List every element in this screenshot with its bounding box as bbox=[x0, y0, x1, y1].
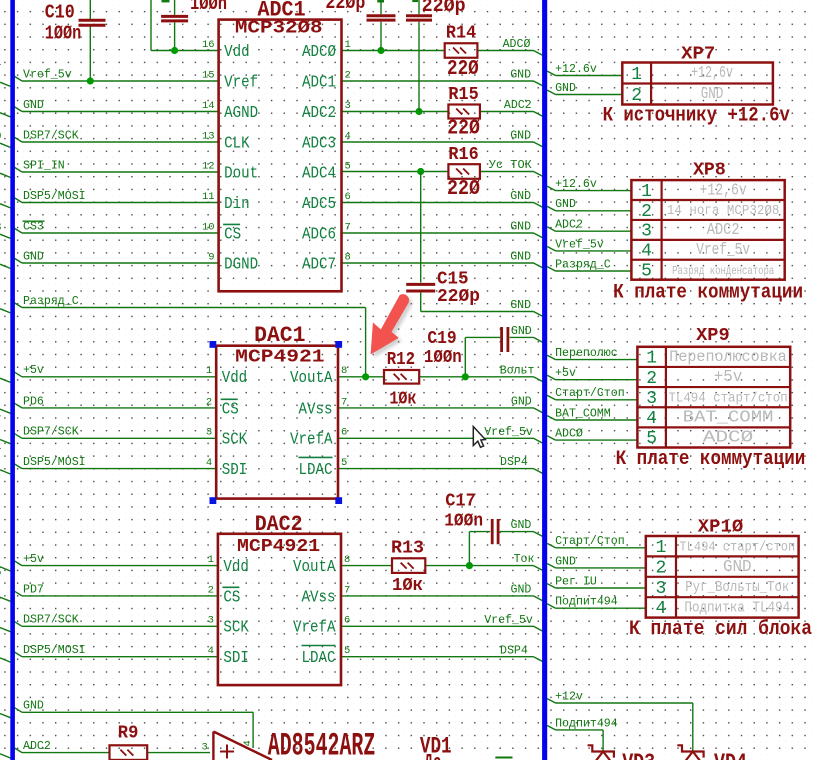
svg-text:CS: CS bbox=[224, 225, 241, 244]
svg-text:1ØØn: 1ØØn bbox=[190, 0, 227, 15]
svg-text:DSP5/MOSI: DSP5/MOSI bbox=[23, 190, 86, 203]
svg-text:BAT_COMM: BAT_COMM bbox=[555, 407, 611, 420]
svg-text:4: 4 bbox=[208, 645, 214, 657]
svg-text:5: 5 bbox=[344, 645, 350, 657]
svg-text:VoutA: VoutA bbox=[293, 558, 336, 577]
svg-text:VrefA: VrefA bbox=[293, 619, 336, 638]
svg-text:XP1Ø: XP1Ø bbox=[698, 517, 743, 538]
svg-text:TL494 старт/стоп: TL494 старт/стоп bbox=[679, 539, 795, 555]
svg-text:2: 2 bbox=[208, 584, 214, 596]
svg-text:7: 7 bbox=[345, 221, 351, 233]
svg-text:1ØØn: 1ØØn bbox=[424, 347, 462, 368]
svg-text:Vref_5v: Vref_5v bbox=[484, 426, 533, 439]
svg-text:1: 1 bbox=[631, 65, 642, 85]
svg-text:4: 4 bbox=[646, 409, 657, 429]
svg-text:CS: CS bbox=[222, 400, 239, 419]
svg-text:5: 5 bbox=[0, 567, 2, 579]
svg-text:DSP4: DSP4 bbox=[500, 456, 528, 469]
svg-text:Din: Din bbox=[224, 195, 250, 214]
svg-text:3: 3 bbox=[208, 615, 214, 627]
svg-text:Руг_Вольты_Ток: Руг_Вольты_Ток bbox=[685, 580, 789, 596]
svg-text:ADC7: ADC7 bbox=[302, 255, 336, 274]
svg-text:ADC2: ADC2 bbox=[504, 99, 532, 112]
svg-text:15: 15 bbox=[202, 69, 215, 81]
svg-text:DSP7/SCK: DSP7/SCK bbox=[23, 614, 79, 627]
svg-text:7: 7 bbox=[0, 597, 2, 609]
svg-text:GND: GND bbox=[511, 325, 532, 338]
svg-text:22Ø: 22Ø bbox=[447, 58, 479, 81]
svg-text:CS3: CS3 bbox=[23, 220, 44, 233]
svg-text:C17: C17 bbox=[445, 491, 476, 512]
svg-text:1: 1 bbox=[206, 365, 212, 377]
svg-text:MCP32Ø8: MCP32Ø8 bbox=[235, 18, 323, 39]
svg-text:8: 8 bbox=[344, 554, 350, 566]
svg-text:ADCØ: ADCØ bbox=[555, 428, 583, 441]
svg-text:14: 14 bbox=[202, 100, 215, 112]
svg-text:1: 1 bbox=[646, 349, 657, 369]
svg-text:AD8542ARZ: AD8542ARZ bbox=[268, 728, 376, 760]
svg-text:11: 11 bbox=[202, 191, 215, 203]
svg-text:AVss: AVss bbox=[299, 400, 333, 419]
svg-text:3: 3 bbox=[206, 427, 212, 439]
svg-text:6: 6 bbox=[345, 191, 351, 203]
svg-text:3: 3 bbox=[202, 742, 208, 754]
svg-text:Подпитка TL494: Подпитка TL494 bbox=[684, 601, 790, 617]
svg-text:GND: GND bbox=[23, 700, 44, 713]
svg-text:8: 8 bbox=[341, 365, 347, 377]
svg-text:SCK: SCK bbox=[223, 619, 249, 638]
svg-text:Старт/Стоп: Старт/Стоп bbox=[555, 387, 625, 400]
svg-text:1ØØn: 1ØØn bbox=[45, 23, 82, 45]
svg-text:GND: GND bbox=[510, 251, 531, 264]
svg-text:DGND: DGND bbox=[224, 255, 258, 274]
svg-text:VrefA: VrefA bbox=[290, 431, 333, 450]
svg-text:+5v: +5v bbox=[23, 553, 44, 566]
svg-text:4: 4 bbox=[655, 599, 666, 619]
svg-text:ADC2: ADC2 bbox=[302, 104, 336, 123]
svg-text:Ток: Ток bbox=[514, 553, 535, 566]
svg-text:16: 16 bbox=[202, 39, 215, 51]
svg-text:1: 1 bbox=[641, 182, 652, 202]
svg-text:4: 4 bbox=[641, 242, 652, 262]
svg-text:GND: GND bbox=[510, 221, 531, 234]
svg-text:Да: Да bbox=[424, 751, 442, 760]
svg-text:+12,6v: +12,6v bbox=[700, 180, 747, 199]
svg-text:Переполюсовка: Переполюсовка bbox=[669, 348, 787, 366]
svg-text:К плате коммутации: К плате коммутации bbox=[616, 448, 806, 471]
svg-text:10: 10 bbox=[202, 221, 215, 233]
svg-text:ADC1: ADC1 bbox=[302, 73, 336, 92]
svg-text:13: 13 bbox=[202, 130, 215, 142]
svg-text:DSP5/MOSI: DSP5/MOSI bbox=[23, 456, 86, 469]
svg-text:1Øк: 1Øк bbox=[389, 388, 416, 409]
svg-text:6: 6 bbox=[341, 427, 347, 439]
svg-text:2: 2 bbox=[646, 369, 657, 389]
svg-text:DSP4: DSP4 bbox=[500, 644, 528, 657]
svg-text:DSP5/MOSI: DSP5/MOSI bbox=[23, 644, 86, 657]
svg-text:3: 3 bbox=[345, 100, 351, 112]
svg-text:XP7: XP7 bbox=[681, 43, 715, 64]
svg-text:7: 7 bbox=[341, 396, 347, 408]
svg-text:Vref_5v: Vref_5v bbox=[555, 238, 604, 251]
svg-text:1Øк: 1Øк bbox=[392, 575, 423, 596]
svg-text:ADC4: ADC4 bbox=[302, 164, 336, 183]
svg-text:Разряд_С: Разряд_С bbox=[23, 295, 79, 308]
svg-text:Vdd: Vdd bbox=[223, 558, 249, 577]
svg-text:К источнику +12.6v: К источнику +12.6v bbox=[603, 105, 790, 128]
svg-text:l: l bbox=[0, 57, 2, 69]
svg-text:Dout: Dout bbox=[224, 164, 258, 183]
svg-text:1: 1 bbox=[345, 39, 351, 51]
svg-text:3: 3 bbox=[646, 389, 657, 409]
svg-text:R14: R14 bbox=[446, 22, 476, 43]
svg-text:SDI: SDI bbox=[223, 649, 249, 668]
svg-text:5: 5 bbox=[646, 429, 657, 449]
svg-text:XP8: XP8 bbox=[693, 160, 726, 181]
svg-text:SDI: SDI bbox=[222, 461, 248, 480]
svg-text:22Ø: 22Ø bbox=[447, 118, 480, 141]
svg-text:+12v: +12v bbox=[555, 690, 583, 703]
svg-text:GND: GND bbox=[23, 99, 44, 112]
svg-text:+12,6v: +12,6v bbox=[691, 63, 733, 82]
svg-text:Vdd: Vdd bbox=[222, 369, 248, 388]
svg-text:Vref: Vref bbox=[224, 73, 258, 92]
svg-text:4: 4 bbox=[345, 130, 351, 142]
svg-text:Разряд_С: Разряд_С bbox=[555, 258, 611, 271]
svg-text:C19: C19 bbox=[427, 328, 456, 349]
svg-text:1ØØn: 1ØØn bbox=[444, 511, 483, 532]
svg-text:GND: GND bbox=[23, 250, 44, 263]
svg-text:SCK: SCK bbox=[222, 431, 248, 450]
svg-text:2: 2 bbox=[655, 558, 666, 578]
svg-text:TL494 старт/стоп: TL494 старт/стоп bbox=[668, 390, 787, 406]
svg-text:DSP7/SCK: DSP7/SCK bbox=[23, 129, 79, 142]
svg-text:GND: GND bbox=[510, 299, 531, 312]
svg-text:AGND: AGND bbox=[224, 104, 258, 123]
svg-text:AVss: AVss bbox=[302, 588, 336, 607]
svg-text:7: 7 bbox=[344, 584, 350, 596]
svg-text:GND: GND bbox=[510, 69, 531, 82]
svg-text:Подпит494: Подпит494 bbox=[555, 717, 618, 730]
svg-text:BAT_COMM: BAT_COMM bbox=[683, 407, 774, 426]
svg-text:Подпит494: Подпит494 bbox=[555, 596, 618, 609]
svg-text:LDAC: LDAC bbox=[302, 649, 336, 668]
svg-text:R13: R13 bbox=[391, 537, 424, 558]
svg-text:22Øp: 22Øp bbox=[325, 0, 365, 14]
svg-text:5: 5 bbox=[641, 262, 652, 282]
svg-text:+5v: +5v bbox=[555, 367, 576, 380]
svg-text:Ус ТОК: Ус ТОК bbox=[489, 159, 532, 172]
svg-text:Vref_5v: Vref_5v bbox=[484, 614, 533, 627]
svg-text:GND: GND bbox=[510, 130, 531, 143]
svg-text:ADC6: ADC6 bbox=[302, 225, 336, 244]
svg-text:Рег IU: Рег IU bbox=[555, 575, 597, 588]
svg-text:PD6: PD6 bbox=[23, 395, 44, 408]
svg-text:GND: GND bbox=[555, 198, 576, 211]
svg-text:Старт/Стоп: Старт/Стоп bbox=[555, 535, 625, 548]
svg-text:ADCØ: ADCØ bbox=[503, 38, 531, 51]
svg-text:+5v: +5v bbox=[714, 367, 743, 386]
svg-text:Разряд конденсатора: Разряд конденсатора bbox=[672, 264, 774, 278]
svg-text:0: 0 bbox=[0, 131, 2, 143]
svg-text:+12.6v: +12.6v bbox=[555, 178, 597, 191]
svg-text:MCP4921: MCP4921 bbox=[235, 347, 324, 368]
svg-text:4: 4 bbox=[206, 457, 212, 469]
svg-text:22Øp: 22Øp bbox=[437, 286, 480, 307]
svg-text:22Ø: 22Ø bbox=[447, 178, 480, 201]
svg-text:XP9: XP9 bbox=[696, 325, 730, 346]
svg-text:5: 5 bbox=[341, 457, 347, 469]
svg-text:2: 2 bbox=[345, 69, 351, 81]
svg-text:5: 5 bbox=[345, 160, 351, 172]
svg-text:ADCØ: ADCØ bbox=[703, 429, 753, 448]
svg-text:GND: GND bbox=[511, 584, 532, 597]
svg-text:12: 12 bbox=[202, 160, 215, 172]
svg-text:DAC1: DAC1 bbox=[254, 323, 305, 348]
svg-text:Vref_5v: Vref_5v bbox=[23, 68, 72, 81]
svg-text:GND: GND bbox=[723, 557, 752, 576]
svg-text:DSP7/SCK: DSP7/SCK bbox=[23, 426, 79, 439]
svg-text:R9: R9 bbox=[118, 723, 139, 744]
svg-text:2: 2 bbox=[631, 86, 642, 106]
svg-text:CLK: CLK bbox=[224, 134, 250, 153]
svg-text:4: 4 bbox=[242, 740, 254, 746]
svg-text:VoutA: VoutA bbox=[290, 369, 333, 388]
svg-text:К плате сил блока: К плате сил блока bbox=[629, 618, 812, 641]
svg-text:22Øp: 22Øp bbox=[422, 0, 466, 17]
svg-text:GND: GND bbox=[511, 519, 532, 532]
svg-text:6: 6 bbox=[344, 615, 350, 627]
svg-text:К плате коммутации: К плате коммутации bbox=[613, 282, 803, 305]
svg-text:GND: GND bbox=[510, 190, 531, 203]
svg-text:1: 1 bbox=[208, 554, 214, 566]
svg-text:ADC2: ADC2 bbox=[23, 740, 51, 753]
svg-text:14 нога MCP32Ø8: 14 нога MCP32Ø8 bbox=[667, 204, 780, 219]
svg-text:8: 8 bbox=[345, 251, 351, 263]
svg-text:+5v: +5v bbox=[23, 364, 44, 377]
svg-text:LDAC: LDAC bbox=[299, 461, 333, 480]
svg-text:1: 1 bbox=[655, 538, 666, 558]
svg-text:GND: GND bbox=[555, 82, 576, 95]
svg-text:CS: CS bbox=[223, 588, 240, 607]
svg-text:ADC2: ADC2 bbox=[555, 219, 583, 232]
svg-text:+12.6v: +12.6v bbox=[555, 63, 597, 76]
svg-text:R15: R15 bbox=[448, 84, 478, 105]
svg-text:Вольт: Вольт bbox=[500, 364, 535, 377]
svg-text:MCP4921: MCP4921 bbox=[237, 536, 320, 557]
svg-text:2: 2 bbox=[641, 202, 652, 222]
svg-text:Vdd: Vdd bbox=[224, 43, 250, 62]
svg-text:ADC3: ADC3 bbox=[302, 134, 336, 153]
svg-text:DAC2: DAC2 bbox=[255, 512, 303, 537]
svg-text:GND: GND bbox=[555, 555, 576, 568]
svg-text:Переполюс: Переполюс bbox=[555, 347, 618, 360]
svg-text:SPI_IN: SPI_IN bbox=[23, 159, 65, 172]
svg-text:ADC5: ADC5 bbox=[302, 195, 336, 214]
svg-text:R12: R12 bbox=[387, 349, 415, 370]
svg-text:GND: GND bbox=[511, 396, 532, 409]
svg-text:3: 3 bbox=[0, 222, 2, 234]
svg-text:ADC2: ADC2 bbox=[707, 220, 740, 239]
svg-text:2: 2 bbox=[206, 396, 212, 408]
svg-text:R16: R16 bbox=[448, 144, 478, 165]
svg-text:ADCØ: ADCØ bbox=[302, 43, 336, 62]
svg-text:3: 3 bbox=[641, 222, 652, 242]
svg-text:PD7: PD7 bbox=[23, 583, 44, 596]
svg-text:9: 9 bbox=[208, 251, 214, 263]
svg-text:Vref_5v: Vref_5v bbox=[696, 240, 750, 259]
svg-text:C10: C10 bbox=[45, 2, 75, 24]
svg-text:GND: GND bbox=[701, 84, 724, 103]
svg-text:VD4: VD4 bbox=[714, 750, 747, 760]
svg-text:3: 3 bbox=[655, 579, 666, 599]
svg-text:VD3: VD3 bbox=[622, 750, 655, 760]
